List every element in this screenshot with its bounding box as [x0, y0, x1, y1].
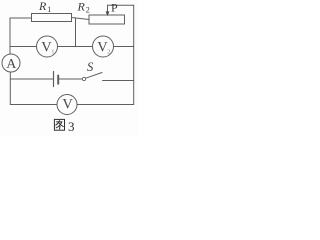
voltmeter V2	[93, 36, 114, 57]
wire R1 to R2	[72, 18, 90, 20]
wire battery to switch	[59, 78, 83, 80]
svg-text:2: 2	[86, 6, 90, 15]
svg-text:1: 1	[51, 49, 54, 56]
ammeter A	[2, 54, 20, 72]
svg-text:S: S	[87, 60, 94, 74]
wire left vertical upper	[9, 18, 11, 54]
svg-text:3: 3	[68, 119, 75, 134]
voltmeter V	[57, 95, 77, 115]
wire right vertical	[133, 5, 135, 104]
wire battery left	[10, 78, 53, 80]
label R2	[77, 0, 90, 15]
wire slider top horizontal	[108, 4, 134, 6]
wire bottom left	[10, 104, 57, 106]
svg-text:2: 2	[107, 49, 110, 56]
svg-text:R: R	[38, 0, 47, 13]
wire V2 to right vertical	[114, 46, 134, 48]
svg-text:P: P	[111, 1, 118, 15]
voltmeter V1	[37, 36, 58, 57]
wire V1 to V2	[58, 46, 93, 48]
battery	[54, 72, 59, 87]
svg-text:R: R	[77, 0, 86, 14]
wire top-left horizontal	[10, 17, 32, 19]
rheostat R2	[89, 15, 125, 24]
wire middle vertical node	[75, 18, 77, 47]
wire switch to right vertical	[103, 80, 134, 82]
svg-text:A: A	[6, 57, 17, 72]
switch S	[82, 73, 102, 81]
wire left to V1	[10, 46, 37, 48]
wire left vertical lower	[9, 72, 11, 105]
svg-text:1: 1	[47, 5, 51, 14]
svg-text:V: V	[62, 96, 73, 112]
resistor R1	[32, 14, 72, 22]
caption glyph 图	[54, 119, 64, 130]
wire bottom right	[77, 104, 134, 106]
label R1	[38, 0, 51, 14]
slider arrow of R2	[106, 5, 110, 16]
